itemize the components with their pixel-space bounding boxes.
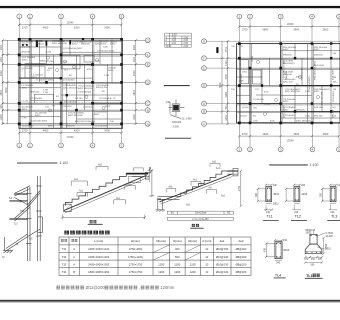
svg-text:TL3: TL3 bbox=[331, 215, 337, 219]
separator line bbox=[164, 85, 190, 87]
svg-text:3Ø16: 3Ø16 bbox=[283, 249, 290, 252]
svg-text:3400: 3400 bbox=[104, 26, 110, 30]
svg-text:1200: 1200 bbox=[174, 262, 180, 266]
plan B vertical axis lines bbox=[239, 44, 313, 123]
svg-text:4Ø12: 4Ø12 bbox=[22, 87, 28, 89]
plan A interior beams bbox=[19, 39, 122, 128]
plan A bottom axis circles bbox=[17, 143, 124, 148]
svg-text:T33: T33 bbox=[62, 262, 67, 266]
top sheet border line bbox=[0, 6, 340, 8]
svg-text:L=(m-1)xb+450: L=(m-1)xb+450 bbox=[192, 218, 209, 221]
svg-text:4840: 4840 bbox=[293, 27, 299, 31]
svg-text:B: B bbox=[203, 110, 205, 114]
beam section TL3 bbox=[320, 184, 340, 221]
svg-text:2000: 2000 bbox=[0, 44, 3, 50]
svg-text:2000: 2000 bbox=[133, 44, 136, 50]
svg-text:3600: 3600 bbox=[323, 27, 329, 31]
plan B horizontal axis lines bbox=[237, 58, 340, 112]
svg-text:1200: 1200 bbox=[190, 262, 196, 266]
svg-text:4Ø12: 4Ø12 bbox=[48, 126, 54, 128]
svg-text:1700: 1700 bbox=[22, 129, 28, 133]
svg-text:13340: 13340 bbox=[286, 138, 294, 142]
svg-text:L1240: L1240 bbox=[252, 55, 254, 62]
svg-text:L1240: L1240 bbox=[37, 41, 44, 43]
svg-text:QTL240x300: QTL240x300 bbox=[64, 102, 77, 104]
svg-text:1:100: 1:100 bbox=[310, 163, 319, 167]
right stair right dim bbox=[240, 171, 242, 206]
svg-text:Ø8@20: Ø8@20 bbox=[36, 43, 44, 45]
svg-text:4B: 4B bbox=[16, 244, 19, 246]
svg-text:2600: 2600 bbox=[0, 89, 3, 95]
svg-text:l1(mm): l1(mm) bbox=[173, 239, 182, 243]
left stair top landing bbox=[127, 173, 149, 175]
plan A scale bar 1:100 bbox=[17, 162, 57, 164]
svg-text:2Ø12: 2Ø12 bbox=[325, 248, 332, 251]
svg-text:900: 900 bbox=[0, 104, 3, 109]
svg-text:4Ø12: 4Ø12 bbox=[108, 70, 114, 72]
svg-text:Ø10@150: Ø10@150 bbox=[216, 247, 229, 251]
svg-text:Ø8@200: Ø8@200 bbox=[286, 70, 288, 80]
main reinforcement table grid bbox=[59, 237, 251, 275]
svg-text:1500: 1500 bbox=[133, 70, 136, 76]
plan A right dimension chain and axis circles G-A bbox=[123, 40, 146, 124]
svg-text:B.05 054: B.05 054 bbox=[314, 107, 324, 109]
beam section TL4 bbox=[264, 239, 290, 278]
svg-text:240: 240 bbox=[273, 184, 278, 187]
svg-text:240: 240 bbox=[266, 211, 271, 214]
svg-text:4Ø12: 4Ø12 bbox=[48, 68, 54, 70]
svg-text:Ø8@200: Ø8@200 bbox=[22, 52, 32, 54]
svg-text:A: A bbox=[73, 262, 75, 266]
svg-text:Ad1: Ad1 bbox=[98, 164, 103, 167]
svg-text:B.05: B.05 bbox=[270, 121, 275, 123]
svg-text:L2 240x300: L2 240x300 bbox=[31, 98, 43, 100]
svg-text:WKL240x300: WKL240x300 bbox=[322, 91, 324, 105]
plan B top dimension line bbox=[239, 26, 339, 28]
svg-text:1750×1750: 1750×1750 bbox=[129, 262, 143, 266]
svg-text:±0.00: ±0.00 bbox=[166, 46, 172, 48]
svg-text:L2 240: L2 240 bbox=[22, 101, 29, 103]
svg-text:Ad2: Ad2 bbox=[212, 161, 217, 164]
svg-text:QTL240(2): QTL240(2) bbox=[333, 91, 335, 102]
svg-text:Ø8@200: Ø8@200 bbox=[236, 247, 247, 251]
svg-text:1750×1750: 1750×1750 bbox=[129, 270, 143, 274]
svg-text:950: 950 bbox=[225, 105, 228, 110]
bottom sheet border line bbox=[0, 300, 340, 302]
svg-text:2.80: 2.80 bbox=[184, 46, 189, 48]
svg-text:A: A bbox=[73, 247, 75, 251]
svg-text:240: 240 bbox=[294, 211, 299, 214]
GL column detail bbox=[169, 100, 185, 119]
svg-text:560: 560 bbox=[175, 255, 180, 259]
right stair dim boxes row 1 bbox=[167, 211, 233, 214]
svg-text:l2(mm): l2(mm) bbox=[188, 239, 197, 243]
svg-text:H(mm): H(mm) bbox=[131, 239, 140, 243]
svg-text:1750: 1750 bbox=[148, 166, 152, 173]
svg-text:Ad1: Ad1 bbox=[169, 186, 174, 189]
svg-text:Ø8@200: Ø8@200 bbox=[236, 270, 247, 274]
svg-text:Ø10@130: Ø10@130 bbox=[216, 262, 229, 266]
svg-text:4Ø12 200: 4Ø12 200 bbox=[283, 82, 293, 84]
svg-text:QTL240x300: QTL240x300 bbox=[99, 98, 112, 100]
svg-text:,: , bbox=[139, 285, 140, 290]
svg-text:4400: 4400 bbox=[43, 129, 49, 133]
svg-text:2450: 2450 bbox=[225, 114, 228, 120]
svg-text:E: E bbox=[203, 66, 205, 70]
svg-text:L1 240x500 4Ø14: L1 240x500 4Ø14 bbox=[36, 79, 54, 81]
svg-text:Ø120: Ø120 bbox=[87, 69, 93, 71]
left stair section steps bbox=[65, 173, 133, 205]
svg-text:4Ø12: 4Ø12 bbox=[72, 44, 78, 46]
stairwell schematic (left margin) bbox=[3, 176, 42, 261]
svg-text:As2: As2 bbox=[239, 239, 244, 243]
svg-text:L1240: L1240 bbox=[45, 52, 52, 54]
svg-text:2400: 2400 bbox=[0, 114, 3, 120]
svg-text:1.7M: 1.7M bbox=[22, 118, 27, 120]
left stair right dim with rotated text bbox=[151, 170, 153, 196]
svg-text:4Ø12: 4Ø12 bbox=[314, 49, 320, 51]
svg-text:1150: 1150 bbox=[225, 74, 228, 80]
svg-text:B.05 0540: B.05 0540 bbox=[333, 69, 335, 80]
svg-text:TL4: TL4 bbox=[275, 273, 281, 277]
svg-text:13340: 13340 bbox=[286, 22, 294, 26]
beam section TL1 bbox=[255, 184, 280, 221]
svg-text:240: 240 bbox=[283, 239, 288, 242]
svg-text:Ø8@200: Ø8@200 bbox=[283, 55, 293, 57]
svg-text:L1240: L1240 bbox=[264, 104, 271, 106]
svg-text:Ø8@200: Ø8@200 bbox=[236, 262, 247, 266]
svg-text:240: 240 bbox=[276, 261, 281, 264]
svg-text:QL240x300 4Ø12: QL240x300 4Ø12 bbox=[30, 120, 48, 122]
svg-text:5200: 5200 bbox=[74, 26, 80, 30]
plan A vertical axis/beam lines bbox=[21, 39, 122, 129]
svg-text:4Ø12: 4Ø12 bbox=[35, 115, 41, 117]
svg-text:4Ø12@200: 4Ø12@200 bbox=[95, 44, 107, 46]
plan B top axis circles 1-5 bbox=[237, 14, 340, 19]
svg-text:1800×1905×1363: 1800×1905×1363 bbox=[88, 270, 110, 274]
right stair slab lines bbox=[160, 174, 232, 202]
svg-text:Asl: Asl bbox=[209, 187, 213, 190]
svg-text:3Ø14: 3Ø14 bbox=[273, 193, 280, 196]
svg-text:L240x300: L240x300 bbox=[62, 106, 72, 108]
svg-text:4840: 4840 bbox=[293, 132, 299, 136]
svg-text:4200: 4200 bbox=[74, 129, 80, 133]
svg-text:4840: 4840 bbox=[262, 132, 268, 136]
svg-text:1750(+1120): 1750(+1120) bbox=[128, 255, 143, 259]
storey elevation mini table bbox=[165, 33, 192, 47]
plan A horizontal axis/beam lines bbox=[19, 40, 122, 125]
svg-text:1000: 1000 bbox=[0, 56, 3, 62]
left stair bottom dimension bbox=[62, 216, 144, 218]
svg-text:QTL240x300: QTL240x300 bbox=[283, 105, 285, 118]
right stair section: left landing bbox=[158, 195, 182, 197]
svg-text:3Ø16: 3Ø16 bbox=[301, 193, 308, 196]
svg-text:240: 240 bbox=[166, 101, 171, 104]
svg-text:2Ø12: 2Ø12 bbox=[273, 202, 280, 205]
svg-text:T34: T34 bbox=[62, 270, 67, 274]
left stair callout brackets bbox=[71, 167, 135, 205]
svg-text:2405×1640×1244: 2405×1640×1244 bbox=[88, 247, 110, 251]
svg-text:1200: 1200 bbox=[158, 262, 164, 266]
svg-text:2.80: 2.80 bbox=[184, 40, 189, 42]
scale bar 1:100 right bbox=[269, 164, 308, 166]
svg-text:E: E bbox=[147, 63, 149, 67]
svg-text:2.80: 2.80 bbox=[184, 43, 189, 45]
svg-text:A: A bbox=[203, 122, 205, 126]
svg-text:10: 10 bbox=[205, 247, 208, 251]
svg-text:A≡C: A≡C bbox=[216, 167, 221, 170]
svg-text:1750: 1750 bbox=[242, 72, 248, 74]
svg-text:2405×1800×1363: 2405×1800×1363 bbox=[88, 262, 110, 266]
svg-text:3-200: 3-200 bbox=[173, 125, 180, 128]
svg-text:400: 400 bbox=[175, 247, 180, 251]
svg-text:1750: 1750 bbox=[253, 121, 259, 123]
svg-text:9000: 9000 bbox=[219, 82, 222, 88]
plan A column squares bbox=[18, 38, 123, 125]
svg-text:QTL240x300 4Ø12: QTL240x300 4Ø12 bbox=[283, 59, 285, 78]
svg-text:L (mm): L (mm) bbox=[94, 239, 103, 243]
svg-text:Ø8@200: Ø8@200 bbox=[81, 44, 91, 46]
svg-text:F: F bbox=[203, 56, 205, 60]
svg-text:L2 240x300 4Ø12: L2 240x300 4Ø12 bbox=[97, 51, 115, 53]
svg-text:4Ø12: 4Ø12 bbox=[105, 106, 111, 108]
svg-text:4Ø12 Ø8@200: 4Ø12 Ø8@200 bbox=[78, 88, 94, 90]
pedestal section TL1-pou bbox=[304, 229, 334, 278]
svg-text:400x400: 400x400 bbox=[172, 121, 182, 124]
svg-text:QTL240x300(4)Ø12: QTL240x300(4)Ø12 bbox=[63, 48, 83, 50]
svg-text:Ø10@130: Ø10@130 bbox=[216, 270, 229, 274]
svg-text:Ø12@200,: Ø12@200, bbox=[86, 285, 106, 290]
svg-text:4Ø12 Ø8@200: 4Ø12 Ø8@200 bbox=[285, 91, 301, 93]
svg-text:4.00: 4.00 bbox=[172, 43, 177, 45]
svg-text:300: 300 bbox=[255, 192, 258, 197]
svg-text:4Ø12: 4Ø12 bbox=[110, 44, 116, 46]
svg-text:QL240x300: QL240x300 bbox=[22, 68, 34, 70]
svg-text:10: 10 bbox=[205, 270, 208, 274]
svg-text:B.05: B.05 bbox=[264, 92, 269, 94]
svg-text:7.00: 7.00 bbox=[172, 37, 177, 39]
svg-text:1750(+650): 1750(+650) bbox=[129, 247, 143, 251]
svg-text:Ø8@200: Ø8@200 bbox=[31, 91, 41, 93]
svg-text:10: 10 bbox=[205, 262, 208, 266]
plan B left dimension chain bbox=[222, 41, 228, 124]
svg-text:GZ 240: GZ 240 bbox=[75, 98, 83, 100]
plan A top dimension line bbox=[19, 24, 121, 26]
svg-text:3400: 3400 bbox=[104, 129, 110, 133]
plan A bottom dimension line bbox=[19, 132, 121, 134]
svg-text:QL240: QL240 bbox=[242, 107, 249, 109]
svg-text:GL400: GL400 bbox=[326, 235, 334, 238]
left stair bottom block bbox=[64, 204, 72, 211]
svg-text:L3 240x300(2): L3 240x300(2) bbox=[77, 92, 91, 94]
svg-text:2260: 2260 bbox=[225, 91, 228, 97]
svg-text:WKL240: WKL240 bbox=[314, 116, 323, 118]
svg-text:13340: 13340 bbox=[66, 21, 74, 25]
svg-text:3.00: 3.00 bbox=[172, 40, 177, 42]
svg-text:2.80: 2.80 bbox=[184, 37, 189, 39]
svg-text:120mm: 120mm bbox=[160, 285, 174, 290]
right stair callouts bbox=[167, 164, 220, 194]
right stair steps bbox=[181, 171, 228, 196]
plan B outer walls bbox=[237, 44, 340, 123]
svg-text:9000: 9000 bbox=[5, 87, 8, 93]
svg-text:4Ø12 Ø8@200: 4Ø12 Ø8@200 bbox=[296, 121, 312, 123]
plan A top axis stems bbox=[19, 19, 121, 39]
svg-text:Ø8@200: Ø8@200 bbox=[314, 55, 324, 57]
svg-text:Ø8@200: Ø8@200 bbox=[75, 121, 85, 123]
svg-text:d (mm): d (mm) bbox=[202, 239, 211, 243]
short line under GL detail bbox=[165, 137, 191, 139]
svg-text:4Ø12: 4Ø12 bbox=[283, 49, 289, 51]
table diagonal slashes for empty cells bbox=[153, 245, 200, 260]
svg-text:B: B bbox=[73, 270, 75, 274]
plan B rotated beam labels bbox=[241, 55, 335, 118]
svg-text:Ø8@200: Ø8@200 bbox=[296, 109, 306, 111]
svg-text:TL2: TL2 bbox=[295, 215, 301, 219]
svg-text:T32: T32 bbox=[62, 255, 67, 259]
svg-text:L3 240x300: L3 240x300 bbox=[63, 80, 75, 82]
svg-text:Ø10@130: Ø10@130 bbox=[216, 255, 229, 259]
left stair slab lines bbox=[64, 175, 147, 210]
plan B dark wall segments bbox=[237, 44, 340, 123]
plan B small leader circles bbox=[257, 61, 320, 116]
plan A small leader circles bbox=[47, 56, 106, 112]
svg-text:17340: 17340 bbox=[66, 135, 74, 139]
svg-text:Ø8@200: Ø8@200 bbox=[236, 255, 247, 259]
svg-text:4Ø12: 4Ø12 bbox=[22, 109, 28, 111]
svg-text:QTL240x300(2): QTL240x300(2) bbox=[309, 76, 311, 92]
plan A dark wall segments bbox=[19, 39, 122, 129]
svg-text:A: A bbox=[147, 122, 149, 126]
plan A left dimension chains bbox=[2, 40, 19, 124]
svg-text:0540: 0540 bbox=[305, 116, 311, 118]
main table title bbox=[64, 231, 69, 235]
plan B left axis leaders bbox=[206, 41, 340, 124]
svg-text:Dt(mm): Dt(mm) bbox=[156, 239, 166, 243]
svg-text:B.05 0540: B.05 0540 bbox=[241, 73, 243, 84]
svg-text:4Ø12 Ø8@200: 4Ø12 Ø8@200 bbox=[63, 87, 79, 89]
svg-text:1200: 1200 bbox=[190, 270, 196, 274]
svg-text:1.7M: 1.7M bbox=[104, 75, 109, 77]
svg-text:8.00: 8.00 bbox=[172, 35, 177, 37]
svg-text:L1240x300: L1240x300 bbox=[84, 121, 96, 123]
plan A outer walls bbox=[19, 39, 122, 129]
plan B bottom dimension line bbox=[239, 135, 339, 137]
svg-text:4Ø14@150: 4Ø14@150 bbox=[96, 87, 108, 89]
svg-text:4Ø12 Ø8@200: 4Ø12 Ø8@200 bbox=[68, 115, 84, 117]
svg-text:4Ø12: 4Ø12 bbox=[94, 114, 100, 116]
svg-text:400: 400 bbox=[264, 248, 267, 253]
svg-text:Sn=(15)xb: Sn=(15)xb bbox=[195, 212, 207, 215]
svg-text:240: 240 bbox=[301, 184, 306, 187]
svg-text:4Ø12: 4Ø12 bbox=[283, 101, 289, 103]
svg-text:3600: 3600 bbox=[323, 132, 329, 136]
table header text bbox=[61, 239, 244, 243]
svg-text:1750: 1750 bbox=[238, 185, 241, 191]
svg-text:A: A bbox=[73, 255, 75, 259]
svg-text:1100: 1100 bbox=[225, 60, 228, 66]
svg-text:2.7M: 2.7M bbox=[43, 92, 48, 94]
svg-text:Ad1: Ad1 bbox=[186, 204, 191, 207]
table body text bbox=[62, 247, 247, 274]
svg-text:L240x300: L240x300 bbox=[83, 107, 93, 109]
svg-text:1:100: 1:100 bbox=[60, 161, 69, 165]
svg-text:QL240x300: QL240x300 bbox=[22, 126, 34, 128]
svg-text:4Ø14 Ø8@200: 4Ø14 Ø8@200 bbox=[52, 43, 68, 45]
plan B top axis stems bbox=[239, 19, 339, 44]
plan A top axis circles 1-5 bbox=[17, 14, 124, 19]
plan A annotation text clusters bbox=[22, 41, 118, 128]
beam section TL2 bbox=[285, 184, 308, 221]
plan B annotation text clusters bbox=[239, 46, 337, 123]
right stair top landing bbox=[228, 170, 239, 172]
svg-text:QTL240x300: QTL240x300 bbox=[95, 126, 108, 128]
svg-text:GL-1 450: GL-1 450 bbox=[182, 118, 193, 121]
svg-text:240: 240 bbox=[330, 211, 335, 214]
svg-text:TL1: TL1 bbox=[267, 215, 273, 219]
svg-text:L1240x300: L1240x300 bbox=[253, 99, 265, 101]
svg-text:B: B bbox=[147, 108, 149, 112]
svg-text:Ad2: Ad2 bbox=[127, 183, 132, 186]
svg-text:WKL240: WKL240 bbox=[333, 109, 335, 118]
plan B left axis circles G-A bbox=[202, 39, 207, 127]
svg-text:Ø8@200: Ø8@200 bbox=[66, 126, 76, 128]
right stair title bbox=[192, 224, 195, 227]
svg-text:2400: 2400 bbox=[133, 114, 136, 120]
plan B column squares bbox=[216, 42, 332, 124]
svg-text:TM: TM bbox=[19, 202, 22, 204]
svg-text:As1: As1 bbox=[220, 239, 225, 243]
svg-text:4400: 4400 bbox=[43, 26, 49, 30]
left stair title bbox=[90, 220, 93, 223]
svg-text:10: 10 bbox=[205, 255, 208, 259]
bottom note text bbox=[56, 286, 60, 290]
svg-text:1500: 1500 bbox=[0, 70, 3, 76]
svg-text:F: F bbox=[147, 53, 149, 57]
svg-text:1000: 1000 bbox=[133, 56, 136, 62]
svg-text:TZL240x300: TZL240x300 bbox=[302, 67, 304, 80]
svg-text:T31: T31 bbox=[62, 247, 67, 251]
svg-text:300: 300 bbox=[320, 192, 323, 197]
svg-text:4840: 4840 bbox=[262, 27, 268, 31]
svg-text:2Ø12: 2Ø12 bbox=[306, 232, 313, 235]
svg-text:4Ø12: 4Ø12 bbox=[22, 59, 28, 61]
svg-text:Ø8@200: Ø8@200 bbox=[22, 47, 32, 49]
svg-text:1200: 1200 bbox=[158, 270, 164, 274]
svg-text:WKL240x300 4Ø12: WKL240x300 4Ø12 bbox=[314, 60, 316, 80]
right stair dim box row 2 bbox=[167, 217, 233, 220]
plan B interior beams bbox=[237, 44, 340, 123]
svg-text:2405×1620×1363: 2405×1620×1363 bbox=[88, 255, 110, 259]
svg-text:1200: 1200 bbox=[174, 270, 180, 274]
svg-text:1700: 1700 bbox=[242, 27, 248, 31]
svg-text:2600: 2600 bbox=[133, 89, 136, 95]
svg-text:4Ø12: 4Ø12 bbox=[314, 91, 320, 93]
svg-text:L240: L240 bbox=[103, 47, 109, 49]
svg-text:QL240: QL240 bbox=[240, 116, 247, 118]
svg-text:1700: 1700 bbox=[242, 132, 248, 136]
plan B left dim small texts bbox=[231, 46, 235, 91]
plan B bottom axis circles bbox=[237, 147, 340, 152]
svg-text:1750: 1750 bbox=[225, 46, 228, 52]
svg-text:TL1: TL1 bbox=[306, 274, 312, 278]
svg-text:1700: 1700 bbox=[22, 26, 28, 30]
